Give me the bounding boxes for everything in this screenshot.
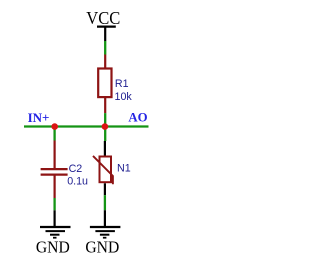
varistor N1 body	[100, 157, 112, 183]
svg-text:GND: GND	[36, 237, 70, 256]
wire junction to C2	[53, 127, 55, 141]
varistor N1 pin 1	[104, 141, 106, 156]
resistor R1 pin 1	[104, 55, 106, 70]
svg-text:GND: GND	[85, 237, 119, 256]
svg-text:VCC: VCC	[86, 8, 120, 28]
svg-text:0.1u: 0.1u	[67, 175, 88, 187]
ground left bar 2	[46, 230, 66, 232]
ground right bar 1	[90, 226, 121, 228]
ground right bar 3	[100, 234, 110, 236]
wire C2 to left GND	[53, 198, 55, 210]
ground left bar 4	[53, 237, 57, 239]
ground left bar 1	[40, 226, 71, 228]
junction right node	[102, 123, 109, 130]
ground right bar 2	[95, 230, 115, 232]
capacitor C2 plate 1	[41, 168, 68, 170]
wire N1 to right GND	[104, 195, 106, 210]
wire R1 to junction and down to N1	[104, 113, 106, 141]
ground left bar 3	[50, 234, 60, 236]
svg-text:IN+: IN+	[28, 110, 50, 125]
wire horizontal IN+ to AO	[24, 125, 149, 127]
junction left node	[51, 123, 58, 130]
resistor R1 pin 2	[104, 97, 106, 113]
ground left stem	[53, 210, 55, 226]
svg-text:AO: AO	[128, 111, 147, 125]
wire VCC to R1	[104, 41, 106, 55]
resistor R1 body	[98, 69, 111, 98]
svg-text:N1: N1	[117, 163, 131, 175]
varistor N1 diagonal stroke	[93, 156, 113, 184]
svg-text:C2: C2	[69, 163, 83, 175]
capacitor C2 plate 2	[41, 174, 68, 176]
power port VCC bar	[97, 26, 116, 28]
varistor N1 pin 2	[104, 183, 106, 195]
svg-text:R1: R1	[115, 78, 129, 90]
ground right stem	[104, 210, 106, 226]
power port VCC stem	[104, 27, 106, 41]
svg-text:10k: 10k	[115, 91, 133, 103]
capacitor C2 pin 1	[53, 141, 55, 169]
capacitor C2 pin 2	[53, 175, 55, 198]
ground right bar 4	[103, 237, 107, 239]
